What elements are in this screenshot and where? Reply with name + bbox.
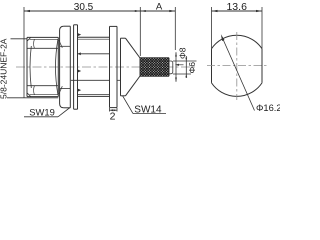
dim phi8 bottom arrow [175, 78, 177, 82]
barrel inner shoulder bottom line segment [117, 79, 121, 81]
centerline left view [16, 66, 197, 68]
dim 30.5 right arrow [135, 10, 141, 12]
thread label leader line top [11, 38, 28, 40]
dim phi6 bottom arrow [185, 74, 187, 77]
end view vertical centerline [236, 32, 238, 100]
threaded barrel 5/8-24UNEF-2A [78, 37, 110, 96]
thread label leader line bottom [7, 97, 58, 99]
end view horizontal centerline [207, 65, 269, 67]
svg-text:Φ6: Φ6 [187, 62, 197, 74]
phi16.2 leader arrow [221, 34, 225, 41]
thread pointer arrow mid-top [78, 52, 81, 55]
dim 13.6 right arrow [256, 10, 262, 12]
ferrule end cap [169, 61, 173, 74]
thread pointer arrow top [78, 33, 81, 36]
dim A extension line right [174, 7, 176, 50]
dim A left arrow [140, 10, 146, 12]
dim 2 line and arrows [110, 109, 118, 111]
dim A line [140, 10, 175, 12]
crimp ferrule knurled [140, 58, 169, 76]
dim 13.6 line [212, 10, 263, 12]
dim phi6 ext line top [173, 60, 197, 62]
svg-text:2: 2 [110, 110, 116, 122]
svg-text:13.6: 13.6 [226, 1, 247, 13]
barrel inner shoulder top line [78, 53, 110, 55]
hex SW14 with taper cone [121, 38, 141, 96]
dim 13.6 left arrow [212, 10, 218, 12]
svg-text:SW19: SW19 [29, 107, 55, 118]
label SW19 underline [24, 116, 58, 118]
dim 13.6 extension line left / flat edge [211, 7, 213, 49]
svg-text:30.5: 30.5 [74, 2, 94, 13]
svg-text:A: A [156, 1, 163, 12]
dim 30.5 left arrow [24, 10, 30, 12]
lock washer [74, 25, 78, 109]
end view circle arcs [212, 35, 263, 48]
dim 30.5 / A shared extension line [139, 7, 141, 56]
dim phi6 ext line bottom [173, 73, 191, 75]
dim 13.6 extension line right / flat edge [261, 7, 263, 49]
cap pointer arrow [175, 64, 179, 66]
thread pointer arrow bottom [78, 89, 81, 92]
dim 2 extension lines [109, 108, 111, 112]
thread pointer arrow mid-bottom [78, 70, 81, 73]
svg-text:5/8-24UNEF-2A: 5/8-24UNEF-2A [0, 38, 9, 99]
dim phi8 line [175, 52, 177, 82]
bulkhead washer [110, 26, 118, 107]
dim phi6 line [185, 56, 187, 78]
hex nut SW19 [59, 26, 71, 108]
label SW14 leader [123, 96, 133, 114]
dim 30.5 line [24, 10, 140, 12]
dim 30.5 extension line left [23, 7, 25, 98]
svg-text:Φ16.2: Φ16.2 [256, 103, 280, 113]
label SW19 leader [58, 108, 70, 117]
barrel inner shoulder bottom line [71, 79, 110, 81]
phi16.2 leader line [222, 37, 255, 111]
end view flats [211, 49, 213, 83]
label SW14 underline [133, 113, 166, 115]
dim A right arrow [169, 10, 175, 12]
dim phi6 top arrow [185, 58, 187, 61]
dim phi8 top arrow [175, 52, 177, 56]
coupling hex body [27, 37, 58, 96]
